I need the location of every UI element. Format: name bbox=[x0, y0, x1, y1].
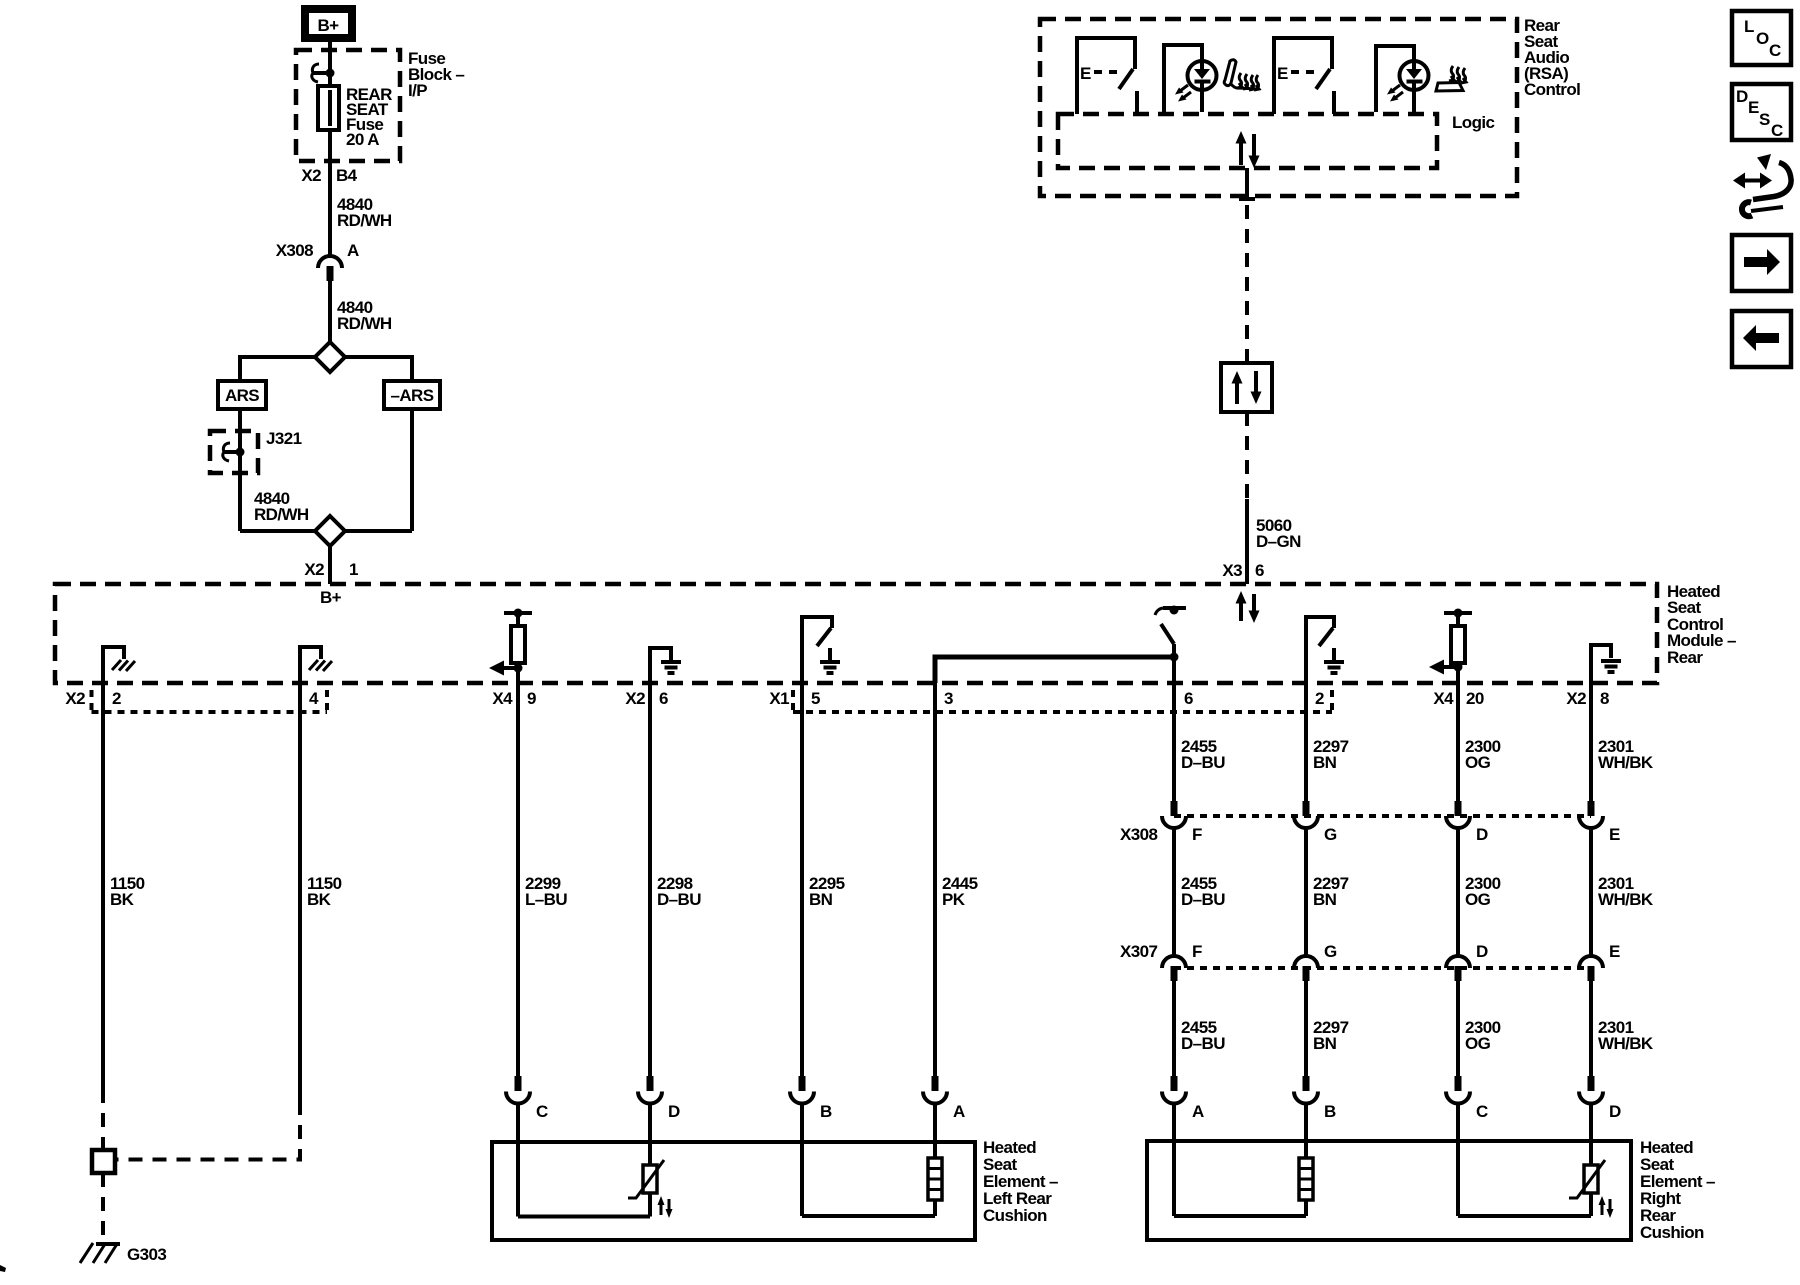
svg-text:D: D bbox=[668, 1102, 680, 1121]
wire 2299 L-BU bbox=[516, 683, 520, 1077]
svg-text:S: S bbox=[1759, 110, 1770, 129]
svg-text:3: 3 bbox=[944, 689, 953, 708]
label Rear Seat Audio (RSA) Control bbox=[1524, 16, 1580, 99]
svg-text:6: 6 bbox=[659, 689, 668, 708]
module internal feed resistor X4-9 bbox=[489, 609, 532, 684]
icon heated seat cushion bbox=[1436, 66, 1466, 91]
label Fuse Block - I/P bbox=[408, 49, 464, 100]
connector X2 grouping bracket bbox=[92, 690, 328, 712]
logic block dashed box bbox=[1058, 114, 1437, 168]
splice square S303 bbox=[92, 1150, 115, 1173]
wire 2298 D-BU bbox=[648, 683, 652, 1077]
thermistor left element bbox=[628, 1160, 664, 1217]
icon diagnostic wrench with arrows bbox=[1733, 154, 1791, 216]
svg-text:L: L bbox=[1744, 17, 1754, 36]
svg-text:C: C bbox=[1476, 1102, 1488, 1121]
svg-text:D: D bbox=[1476, 942, 1488, 961]
svg-text:D: D bbox=[1736, 87, 1748, 106]
connector terminal C left element bbox=[506, 1076, 548, 1121]
module internal ground driver pin2 bbox=[103, 647, 135, 683]
dashed serial data wire lower bbox=[1245, 412, 1249, 499]
heated seat control module dashed box bbox=[55, 584, 1657, 683]
RSA output stub bbox=[1239, 168, 1255, 199]
thermistor right element bbox=[1569, 1160, 1605, 1216]
svg-text:RD/WH: RD/WH bbox=[337, 211, 392, 230]
module internal ground X2-6 bbox=[650, 648, 681, 683]
svg-text:Cushion: Cushion bbox=[983, 1206, 1047, 1225]
svg-text:Cushion: Cushion bbox=[1640, 1223, 1704, 1242]
connector terminal B right element bbox=[1294, 1076, 1336, 1121]
connector X308 dotted row bbox=[1174, 814, 1591, 818]
svg-text:X308: X308 bbox=[276, 241, 313, 260]
page mark bbox=[0, 1265, 6, 1272]
wire 2301 WH/BK segment 2 bbox=[1589, 828, 1593, 956]
heating element right bbox=[1299, 1158, 1313, 1216]
svg-text:OG: OG bbox=[1465, 890, 1491, 909]
wire splice to -ARS branch bbox=[345, 357, 412, 381]
svg-text:B4: B4 bbox=[336, 166, 358, 185]
svg-text:A: A bbox=[347, 241, 359, 260]
svg-text:X2: X2 bbox=[1566, 689, 1586, 708]
svg-text:E: E bbox=[1080, 64, 1091, 83]
wire 2297 BN segment 2 bbox=[1304, 828, 1308, 956]
svg-text:E: E bbox=[1609, 825, 1620, 844]
svg-text:E: E bbox=[1277, 64, 1288, 83]
wire 2301 WH/BK segment 1 bbox=[1589, 683, 1593, 801]
svg-text:9: 9 bbox=[527, 689, 536, 708]
icon heated seat back bbox=[1224, 60, 1259, 90]
wire 2300 OG segment 2 bbox=[1456, 828, 1460, 956]
module internal switch pin6 bbox=[1155, 606, 1186, 684]
icon next page arrow button bbox=[1732, 235, 1791, 291]
label Heated Seat Element Left Rear Cushion bbox=[983, 1138, 1058, 1225]
module internal switch to ground X1-5 bbox=[802, 617, 840, 683]
module internal feed resistor X4-20 bbox=[1429, 609, 1472, 684]
heated seat element right rear cushion box bbox=[1147, 1141, 1631, 1240]
svg-text:RD/WH: RD/WH bbox=[254, 505, 309, 524]
svg-text:Rear: Rear bbox=[1667, 648, 1703, 667]
svg-text:BN: BN bbox=[1313, 1034, 1337, 1053]
splice pack J321 bbox=[210, 429, 302, 473]
serial data link symbol boxed arrows bbox=[1221, 363, 1272, 412]
connector terminal B left element bbox=[790, 1076, 832, 1121]
icon LOC button bbox=[1732, 11, 1791, 65]
splice diamond bottom bbox=[315, 516, 345, 546]
wire B to A inside left element bbox=[802, 1214, 935, 1218]
pin label X2 B4 bbox=[301, 166, 357, 185]
svg-text:OG: OG bbox=[1465, 753, 1491, 772]
label REAR SEAT Fuse 20 A bbox=[346, 85, 392, 149]
icon previous page arrow button bbox=[1732, 311, 1791, 367]
svg-text:BN: BN bbox=[809, 890, 833, 909]
svg-text:20 A: 20 A bbox=[346, 130, 379, 149]
svg-text:D–BU: D–BU bbox=[1181, 1034, 1225, 1053]
wire 2297 BN segment 3 bbox=[1304, 981, 1308, 1077]
bus tap hook at fuse block bbox=[312, 64, 335, 82]
module internal ground X2-8 bbox=[1591, 645, 1621, 683]
wire 2300 OG segment 1 bbox=[1456, 683, 1460, 801]
wire ARS to J321 bbox=[238, 409, 242, 531]
switch SW1 left heated seat switch bbox=[1077, 38, 1137, 114]
connector X308 pin E bbox=[1579, 801, 1620, 844]
svg-text:E: E bbox=[1748, 98, 1759, 117]
connector terminal D left element bbox=[638, 1076, 680, 1121]
connector X308 pin D bbox=[1446, 801, 1488, 844]
svg-text:F: F bbox=[1192, 825, 1202, 844]
wire X308 to splice bbox=[328, 281, 332, 342]
svg-text:X307: X307 bbox=[1120, 942, 1157, 961]
box ARS bbox=[218, 381, 266, 409]
wire 2445 PK bbox=[933, 683, 937, 1077]
svg-text:B+: B+ bbox=[320, 588, 342, 607]
module internal ground driver pin4 bbox=[300, 647, 332, 683]
module internal wire pin3 to pin6 bbox=[935, 657, 1174, 683]
svg-text:X2: X2 bbox=[625, 689, 645, 708]
svg-text:OG: OG bbox=[1465, 1034, 1491, 1053]
wire into left element bbox=[648, 1104, 652, 1166]
temperature arrows left element bbox=[658, 1196, 673, 1218]
svg-text:A: A bbox=[953, 1102, 965, 1121]
svg-text:WH/BK: WH/BK bbox=[1598, 1034, 1654, 1053]
box -ARS bbox=[384, 381, 440, 409]
wire 2301 WH/BK segment 3 bbox=[1589, 981, 1593, 1077]
connector X307 pin E bbox=[1579, 942, 1620, 981]
wire 2455 D-BU segment 2 bbox=[1172, 828, 1176, 956]
svg-text:ARS: ARS bbox=[225, 386, 259, 405]
svg-text:1: 1 bbox=[349, 560, 358, 579]
svg-text:I/P: I/P bbox=[408, 81, 427, 100]
svg-text:2: 2 bbox=[1315, 689, 1324, 708]
icon DESC button bbox=[1732, 84, 1791, 140]
svg-text:6: 6 bbox=[1184, 689, 1193, 708]
svg-text:C: C bbox=[1769, 41, 1781, 60]
connector X307 pin F bbox=[1162, 942, 1202, 981]
svg-text:5: 5 bbox=[811, 689, 820, 708]
serial data arrows at module input bbox=[1236, 591, 1260, 623]
wire into left element bbox=[800, 1104, 804, 1217]
wire 2455 D-BU segment 1 bbox=[1172, 683, 1176, 801]
svg-text:BN: BN bbox=[1313, 753, 1337, 772]
svg-text:A: A bbox=[1192, 1102, 1204, 1121]
temperature arrows right element bbox=[1599, 1196, 1614, 1218]
svg-text:D: D bbox=[1476, 825, 1488, 844]
svg-text:PK: PK bbox=[942, 890, 966, 909]
wires into right element bbox=[1174, 1104, 1591, 1217]
label Heated Seat Element Right Rear Cushion bbox=[1640, 1138, 1715, 1242]
connector terminal A left element bbox=[923, 1076, 965, 1121]
connector X1 grouping bracket bbox=[793, 690, 1332, 712]
serial data arrows in logic bbox=[1236, 131, 1260, 168]
heated seat element left rear cushion box bbox=[492, 1142, 975, 1240]
svg-text:WH/BK: WH/BK bbox=[1598, 753, 1654, 772]
svg-text:X2: X2 bbox=[304, 560, 324, 579]
wire 1150 BK second bbox=[298, 683, 302, 1101]
wire dashed to splice square bbox=[101, 1089, 105, 1150]
svg-text:X1: X1 bbox=[769, 689, 789, 708]
wire 5060 D-GN bbox=[1245, 499, 1249, 584]
dashed serial data wire bbox=[1245, 205, 1249, 361]
svg-text:6: 6 bbox=[1255, 561, 1264, 580]
fuse REAR SEAT 20A bbox=[318, 86, 339, 130]
label Heated Seat Control Module - Rear bbox=[1667, 582, 1736, 667]
switch SW2 right heated seat switch bbox=[1274, 38, 1334, 114]
connector X308 pin A bbox=[276, 241, 359, 281]
pin label X2 1 bbox=[304, 560, 358, 579]
wire 2455 D-BU segment 3 bbox=[1172, 981, 1176, 1077]
svg-text:G303: G303 bbox=[127, 1245, 166, 1264]
wire dashed to splice bbox=[115, 1101, 300, 1160]
svg-text:2: 2 bbox=[112, 689, 121, 708]
wire label 4840 RD/WH bbox=[337, 195, 392, 230]
wire label 4840 RD/WH bbox=[337, 298, 392, 333]
connector X307 pin G bbox=[1294, 942, 1337, 981]
svg-text:E: E bbox=[1609, 942, 1620, 961]
wire into left element bbox=[933, 1104, 937, 1159]
svg-text:B: B bbox=[1324, 1102, 1336, 1121]
svg-text:G: G bbox=[1324, 942, 1337, 961]
svg-text:20: 20 bbox=[1466, 689, 1484, 708]
svg-text:F: F bbox=[1192, 942, 1202, 961]
wire C to D inside left element bbox=[518, 1215, 650, 1219]
svg-text:Logic: Logic bbox=[1452, 113, 1494, 132]
wire C to D inside right element bbox=[1458, 1214, 1591, 1218]
wire 2300 OG segment 3 bbox=[1456, 981, 1460, 1077]
wire label 5060 D-GN bbox=[1256, 516, 1301, 551]
LED indicator left bbox=[1164, 45, 1217, 112]
connector X307 dotted row bbox=[1174, 966, 1591, 970]
svg-text:8: 8 bbox=[1600, 689, 1609, 708]
svg-text:X4: X4 bbox=[492, 689, 513, 708]
pin labels row bbox=[65, 689, 1609, 708]
svg-text:D–BU: D–BU bbox=[1181, 890, 1225, 909]
RSA control dashed box bbox=[1040, 19, 1517, 196]
svg-text:C: C bbox=[536, 1102, 548, 1121]
svg-text:B+: B+ bbox=[317, 16, 339, 35]
svg-text:O: O bbox=[1756, 29, 1769, 48]
battery positive B+ bbox=[301, 5, 356, 42]
wire splice to module bbox=[328, 546, 332, 584]
connector X307 pin D bbox=[1446, 942, 1488, 981]
wire label 4840 RD/WH bbox=[254, 489, 309, 524]
svg-text:RD/WH: RD/WH bbox=[337, 314, 392, 333]
wire 2295 BN bbox=[800, 683, 804, 1077]
connector X308 pin F bbox=[1162, 801, 1202, 844]
svg-text:D–BU: D–BU bbox=[657, 890, 701, 909]
ground G303 bbox=[80, 1243, 166, 1264]
wire splice to ARS branch bbox=[240, 357, 315, 381]
wire A to B inside right element bbox=[1174, 1214, 1306, 1218]
svg-text:G: G bbox=[1324, 825, 1337, 844]
svg-text:D–BU: D–BU bbox=[1181, 753, 1225, 772]
splice diamond top bbox=[315, 342, 345, 372]
connector X308 pin G bbox=[1294, 801, 1337, 844]
svg-text:D: D bbox=[1609, 1102, 1621, 1121]
svg-text:J321: J321 bbox=[266, 429, 302, 448]
wire -ARS down bbox=[410, 409, 414, 531]
LED indicator right bbox=[1376, 46, 1429, 112]
svg-text:X2: X2 bbox=[301, 166, 321, 185]
wire B+ to fuse bbox=[328, 42, 332, 86]
wire 2297 BN segment 1 bbox=[1304, 683, 1308, 801]
heating element left bbox=[928, 1158, 942, 1216]
svg-text:L–BU: L–BU bbox=[525, 890, 567, 909]
svg-text:B: B bbox=[820, 1102, 832, 1121]
svg-text:X4: X4 bbox=[1433, 689, 1454, 708]
svg-text:C: C bbox=[1771, 121, 1783, 140]
connector terminal A right element bbox=[1162, 1076, 1204, 1121]
svg-text:4: 4 bbox=[309, 689, 319, 708]
svg-text:Control: Control bbox=[1524, 80, 1580, 99]
fuse block I/P dashed box bbox=[296, 50, 400, 161]
wire branches to bottom splice bbox=[240, 529, 412, 533]
wire into left element bbox=[516, 1104, 520, 1217]
wire 1150 BK left bbox=[101, 683, 105, 1089]
svg-text:BK: BK bbox=[307, 890, 332, 909]
svg-text:WH/BK: WH/BK bbox=[1598, 890, 1654, 909]
svg-text:X308: X308 bbox=[1120, 825, 1157, 844]
wire dashed to G303 bbox=[101, 1173, 105, 1238]
svg-text:X2: X2 bbox=[65, 689, 85, 708]
svg-text:BN: BN bbox=[1313, 890, 1337, 909]
svg-text:X3: X3 bbox=[1222, 561, 1242, 580]
svg-text:D–GN: D–GN bbox=[1256, 532, 1301, 551]
connector terminal D right element bbox=[1579, 1076, 1621, 1121]
connector terminal C right element bbox=[1446, 1076, 1488, 1121]
svg-text:BK: BK bbox=[110, 890, 135, 909]
pin label X3 6 bbox=[1222, 561, 1264, 580]
module internal switch to ground pin2 bbox=[1306, 617, 1344, 683]
svg-text:–ARS: –ARS bbox=[391, 386, 434, 405]
wire fuse to X308 bbox=[328, 130, 332, 256]
